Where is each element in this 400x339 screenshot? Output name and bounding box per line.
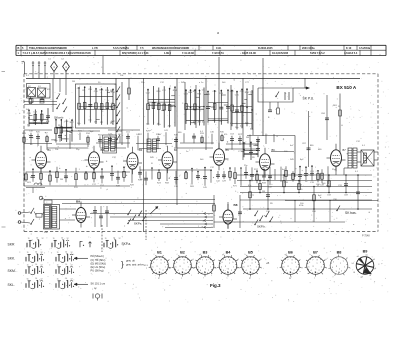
svg-text:47k: 47k <box>47 89 51 91</box>
svg-text:SK P.U.: SK P.U. <box>303 97 315 101</box>
svg-text:f: f <box>333 277 334 279</box>
svg-text:,: , <box>24 246 25 250</box>
svg-text:C29: C29 <box>222 181 227 183</box>
svg-text:10: 10 <box>35 278 37 280</box>
svg-text:50: 50 <box>140 179 143 181</box>
svg-text:R43: R43 <box>22 133 27 135</box>
svg-text:1: 1 <box>188 266 189 268</box>
svg-text:1: 1 <box>344 266 345 268</box>
svg-text:g: g <box>225 266 226 268</box>
svg-text:9: 9 <box>209 262 210 264</box>
svg-text:k: k <box>310 254 311 256</box>
svg-text:47k: 47k <box>224 134 228 136</box>
svg-text:C12: C12 <box>210 167 215 169</box>
svg-text:K 10: K 10 <box>346 47 352 50</box>
svg-text:a: a <box>317 263 319 265</box>
svg-text:1: 1 <box>210 266 211 268</box>
svg-text:5: 5 <box>283 266 284 268</box>
svg-text:C76: C76 <box>94 91 99 93</box>
svg-text:C17: C17 <box>92 184 97 186</box>
svg-text:11: 11 <box>57 265 59 267</box>
svg-text:s: s <box>261 267 262 269</box>
svg-text:4n7: 4n7 <box>290 145 294 147</box>
svg-text:1: 1 <box>256 266 257 268</box>
svg-text:1: 1 <box>18 52 20 55</box>
svg-text:6: 6 <box>199 262 200 264</box>
svg-text:g2: g2 <box>249 278 251 280</box>
svg-text:a: a <box>206 263 208 265</box>
svg-text:C12: C12 <box>112 157 117 159</box>
svg-text:5: 5 <box>152 266 153 268</box>
svg-text:B: B <box>18 47 20 50</box>
svg-text:8p2: 8p2 <box>90 131 94 133</box>
svg-text:6: 6 <box>153 262 154 264</box>
svg-text:C36: C36 <box>210 132 215 134</box>
svg-text:C12: C12 <box>162 90 167 92</box>
svg-text:5: 5 <box>333 262 334 264</box>
svg-text:SK 101 1 cm: SK 101 1 cm <box>91 281 106 285</box>
svg-text:1M: 1M <box>94 122 97 124</box>
svg-text:B7: B7 <box>313 251 318 255</box>
svg-text:0.1: 0.1 <box>362 145 366 147</box>
svg-text:11: 11 <box>27 252 29 254</box>
svg-text:B3: B3 <box>203 251 208 255</box>
svg-text:6: 6 <box>309 262 310 264</box>
svg-text:4.5.2034a: 4.5.2034a <box>359 47 371 50</box>
svg-text:R19: R19 <box>284 182 289 184</box>
svg-text:R53: R53 <box>157 91 162 93</box>
svg-text:B7: B7 <box>343 148 347 152</box>
svg-text:.: . <box>58 248 59 251</box>
svg-text:BX 510 A: BX 510 A <box>336 85 356 90</box>
svg-text:8: 8 <box>229 260 230 262</box>
svg-text:g2: g2 <box>222 254 224 256</box>
svg-text:R76: R76 <box>105 90 110 92</box>
svg-text:f: f <box>277 267 278 269</box>
svg-text:a: a <box>181 278 182 280</box>
svg-text:9: 9 <box>320 262 321 264</box>
svg-text:a5: a5 <box>365 254 367 256</box>
svg-text:8: 8 <box>206 260 207 262</box>
svg-text:,: , <box>23 260 24 264</box>
svg-text:1: 1 <box>296 266 297 268</box>
svg-text:,: , <box>53 272 54 276</box>
svg-text:47k: 47k <box>88 119 92 121</box>
svg-text:8: 8 <box>317 260 318 262</box>
svg-text:C35: C35 <box>174 186 179 188</box>
svg-text:25p: 25p <box>332 169 336 171</box>
svg-text:10: 10 <box>65 252 67 254</box>
svg-text:R71: R71 <box>233 186 238 188</box>
svg-text:10k: 10k <box>55 149 59 151</box>
svg-text:2: 2 <box>294 270 295 272</box>
svg-text:B9: B9 <box>363 250 368 254</box>
svg-text:↓ Ψ: ↓ Ψ <box>92 287 97 291</box>
svg-text:10: 10 <box>65 278 67 280</box>
svg-text:0.1: 0.1 <box>219 121 223 123</box>
svg-text:2: 2 <box>341 271 342 273</box>
svg-text:a: a <box>214 259 215 261</box>
svg-text:9: 9 <box>164 262 165 264</box>
svg-text:C31: C31 <box>310 171 315 173</box>
svg-text:4: 4 <box>200 270 201 272</box>
svg-text:5: 5 <box>308 266 309 268</box>
svg-text:5K3: 5K3 <box>27 182 32 184</box>
svg-text:R54: R54 <box>245 92 250 94</box>
svg-text:11: 11 <box>105 238 107 240</box>
svg-text:g1: g1 <box>193 267 195 269</box>
svg-text:R45: R45 <box>290 159 295 161</box>
svg-text:4: 4 <box>223 270 224 272</box>
svg-text:3: 3 <box>336 271 337 273</box>
svg-text:R23: R23 <box>157 183 162 185</box>
svg-text:k: k <box>192 267 193 269</box>
svg-text:s: s <box>347 257 348 259</box>
svg-text:R9: R9 <box>270 203 274 205</box>
svg-text:.: . <box>62 262 63 265</box>
svg-text:C13: C13 <box>33 111 38 113</box>
svg-text:C12: C12 <box>356 141 361 143</box>
svg-text:C41: C41 <box>164 130 169 132</box>
svg-text:11: 11 <box>53 238 55 240</box>
svg-text:7: 7 <box>9 100 11 102</box>
svg-text:7.42.56 51: 7.42.56 51 <box>212 52 224 55</box>
svg-text:g: g <box>202 266 203 268</box>
svg-text:7: 7 <box>179 260 180 262</box>
svg-text:47k: 47k <box>250 128 254 130</box>
svg-text:1n: 1n <box>305 181 308 183</box>
svg-text:B8: B8 <box>234 203 238 207</box>
svg-text:R17: R17 <box>254 169 259 171</box>
svg-text:11: 11 <box>28 238 30 240</box>
svg-text:5: 5 <box>243 266 244 268</box>
svg-text:11: 11 <box>57 252 59 254</box>
svg-text:8p2: 8p2 <box>300 159 304 161</box>
svg-text:2034 10/4a: 2034 10/4a <box>302 47 315 50</box>
svg-text:B4: B4 <box>174 148 178 152</box>
svg-text:C22: C22 <box>146 92 151 94</box>
svg-text:g: g <box>180 266 181 268</box>
svg-text:PU (SKf+g): PU (SKf+g) <box>91 269 104 273</box>
svg-text:7: 7 <box>156 260 157 262</box>
svg-text:C77: C77 <box>245 82 250 84</box>
svg-text:100: 100 <box>70 127 74 129</box>
svg-text:a: a <box>292 263 294 265</box>
svg-text:C58: C58 <box>327 195 332 197</box>
svg-text:g3: g3 <box>361 277 363 279</box>
svg-text:g: g <box>336 266 337 268</box>
svg-text:7.5: 7.5 <box>140 47 144 50</box>
svg-text:10k: 10k <box>120 75 124 77</box>
svg-text:1.89 4: 1.89 4 <box>164 52 172 55</box>
svg-text:.: . <box>62 289 63 292</box>
svg-text:10n: 10n <box>54 140 58 142</box>
svg-text:C50: C50 <box>88 89 93 91</box>
svg-text:7: 7 <box>225 260 226 262</box>
svg-text:R62: R62 <box>197 93 202 95</box>
svg-text:12: 12 <box>41 279 43 281</box>
svg-text:,: , <box>23 272 24 276</box>
svg-text:4.61/2.8 5.4: 4.61/2.8 5.4 <box>344 52 358 55</box>
svg-text:R58: R58 <box>165 182 170 184</box>
svg-text:1n: 1n <box>186 151 189 153</box>
svg-text:C.M.: C.M. <box>216 47 222 50</box>
svg-text:C32: C32 <box>29 131 34 133</box>
svg-text:6: 6 <box>284 262 285 264</box>
svg-text:R.2034-2045: R.2034-2045 <box>258 47 273 50</box>
svg-text:R67: R67 <box>70 122 75 124</box>
svg-text:C15: C15 <box>235 95 240 97</box>
svg-text:1: 1 <box>65 65 67 69</box>
svg-text:SKPa.: SKPa. <box>134 222 142 226</box>
svg-text:470k: 470k <box>299 205 304 207</box>
svg-text:(E) LG (SKe): (E) LG (SKe) <box>91 265 106 269</box>
svg-text:C86: C86 <box>312 211 317 213</box>
svg-text:L: L <box>111 105 113 109</box>
svg-text:f6: f6 <box>353 272 355 274</box>
svg-text:0.1: 0.1 <box>202 122 206 124</box>
svg-text:g: g <box>288 266 289 268</box>
svg-text:1: 1 <box>233 266 234 268</box>
svg-text:B6: B6 <box>288 251 293 255</box>
svg-text:5: 5 <box>221 266 222 268</box>
svg-text:10: 10 <box>35 252 37 254</box>
svg-text:g1: g1 <box>158 278 160 280</box>
svg-text:a: a <box>217 31 219 35</box>
svg-text:C77: C77 <box>250 195 255 197</box>
svg-text:C57: C57 <box>230 91 235 93</box>
svg-text:R29: R29 <box>146 131 151 133</box>
svg-text:C69: C69 <box>344 195 349 197</box>
svg-text:f: f <box>204 278 205 280</box>
svg-text:B1: B1 <box>157 251 162 255</box>
svg-text:R7: R7 <box>45 133 48 135</box>
svg-text:k: k <box>326 267 327 269</box>
svg-text:12: 12 <box>42 238 44 240</box>
svg-text:2k2: 2k2 <box>168 126 172 128</box>
svg-text:S30: S30 <box>44 232 49 234</box>
svg-text:680: 680 <box>178 132 182 134</box>
svg-text:f: f <box>177 254 178 256</box>
svg-text:,: , <box>49 246 50 250</box>
svg-text:R17: R17 <box>255 145 260 147</box>
svg-text:k: k <box>205 269 206 271</box>
svg-text:12: 12 <box>67 238 69 240</box>
svg-text:C51: C51 <box>126 131 131 133</box>
svg-text:8p2: 8p2 <box>318 195 322 197</box>
svg-text:R49: R49 <box>116 185 121 187</box>
svg-text:10: 10 <box>65 264 67 266</box>
svg-text:R20: R20 <box>36 132 41 134</box>
svg-text:B2: B2 <box>180 251 185 255</box>
svg-text:R33: R33 <box>262 183 267 185</box>
svg-text:k: k <box>228 269 229 271</box>
svg-text:.: . <box>33 248 34 251</box>
svg-text:1: 1 <box>321 266 322 268</box>
svg-text:2M: 2M <box>72 81 75 83</box>
svg-text:R62: R62 <box>98 134 103 136</box>
svg-text:R33: R33 <box>200 133 205 135</box>
svg-text:34.4,61/52/2/8: 34.4,61/52/2/8 <box>272 52 289 55</box>
svg-text:6: 6 <box>244 262 245 264</box>
svg-text:g1: g1 <box>325 259 327 261</box>
svg-text:g1: g1 <box>192 259 194 261</box>
svg-text:C2: C2 <box>61 59 65 61</box>
svg-text:4: 4 <box>155 270 156 272</box>
svg-text:k: k <box>245 254 246 256</box>
svg-text:k: k <box>291 269 292 271</box>
svg-text:50: 50 <box>30 144 33 146</box>
svg-text:4: 4 <box>178 270 179 272</box>
svg-text:C52: C52 <box>240 91 245 93</box>
svg-text:k: k <box>316 269 317 271</box>
svg-text:100: 100 <box>300 203 304 205</box>
svg-text:a5: a5 <box>357 256 359 258</box>
svg-text:B8: B8 <box>337 251 342 255</box>
svg-text:2M: 2M <box>262 191 265 193</box>
svg-text:R11: R11 <box>74 187 78 189</box>
svg-text:R28: R28 <box>130 184 135 186</box>
svg-text:SKL.: SKL. <box>8 283 15 287</box>
svg-text:C25: C25 <box>213 91 218 93</box>
svg-text:4: 4 <box>332 267 333 269</box>
svg-text:5k6: 5k6 <box>222 82 226 84</box>
svg-text:R34: R34 <box>86 133 91 135</box>
svg-text:2: 2 <box>231 270 232 272</box>
svg-text:5: 5 <box>175 266 176 268</box>
svg-text:7: 7 <box>202 260 203 262</box>
svg-text:10: 10 <box>61 238 63 240</box>
svg-text:B5: B5 <box>248 251 253 255</box>
svg-text:12: 12 <box>71 265 73 267</box>
svg-text:25p: 25p <box>76 149 80 151</box>
svg-text:12: 12 <box>71 279 73 281</box>
svg-text:680: 680 <box>318 149 322 151</box>
svg-text:10n: 10n <box>77 123 81 125</box>
svg-text:1n: 1n <box>201 82 204 84</box>
svg-text:.: . <box>62 275 63 278</box>
svg-text:L 7/8: L 7/8 <box>92 47 98 50</box>
svg-text:SKK.: SKK. <box>8 257 16 261</box>
svg-text:4: 4 <box>311 270 312 272</box>
svg-text:a: a <box>216 267 217 269</box>
svg-text:.: . <box>110 248 111 251</box>
svg-text:54/52 7,8.5.2: 54/52 7,8.5.2 <box>310 52 325 55</box>
svg-text:8: 8 <box>252 260 253 262</box>
svg-text:6: 6 <box>338 259 339 261</box>
svg-text:R45: R45 <box>150 157 155 159</box>
svg-text:10n: 10n <box>146 123 150 125</box>
svg-text:7: 7 <box>287 260 288 262</box>
svg-text:8: 8 <box>161 260 162 262</box>
svg-text:k2: k2 <box>352 263 354 265</box>
svg-text:10: 10 <box>35 264 37 266</box>
svg-text:B4: B4 <box>226 251 232 255</box>
svg-text:SK bas.: SK bas. <box>345 211 357 215</box>
svg-text:12: 12 <box>71 252 73 254</box>
svg-text:7.41.18 39: 7.41.18 39 <box>182 52 194 55</box>
svg-text:7.5.4 5 L.M.5.7,3/2/5/C/7/5/2/: 7.5.4 5 L.M.5.7,3/2/5/C/7/5/2/8/3 P.B.3 … <box>23 52 92 55</box>
svg-text:8: 8 <box>184 260 185 262</box>
svg-text:}: } <box>121 260 124 269</box>
svg-text:C7: C7 <box>77 88 81 90</box>
svg-text:a: a <box>350 267 351 269</box>
svg-text:R17: R17 <box>138 134 143 136</box>
svg-text:C6: C6 <box>118 134 121 136</box>
svg-text:C42: C42 <box>216 180 221 182</box>
svg-text:0.1: 0.1 <box>26 75 30 77</box>
svg-text:,: , <box>53 260 54 264</box>
svg-text:f: f <box>302 267 303 269</box>
svg-text:TOELATINGEN GEDEPONEERD: TOELATINGEN GEDEPONEERD <box>29 47 67 50</box>
svg-text:R74: R74 <box>219 93 224 95</box>
svg-text:PA (SKa+b): PA (SKa+b) <box>91 254 104 258</box>
svg-text:a: a <box>161 263 163 265</box>
svg-text:4: 4 <box>246 270 247 272</box>
svg-text:,: , <box>53 286 54 290</box>
svg-text:7: 7 <box>343 261 344 263</box>
svg-text:50: 50 <box>98 82 101 84</box>
svg-text:5: 5 <box>22 47 24 50</box>
svg-text:s: s <box>300 259 301 261</box>
svg-text:2M: 2M <box>246 137 249 139</box>
svg-text:a: a <box>239 267 240 269</box>
svg-text:10n: 10n <box>235 127 239 129</box>
svg-text:R9: R9 <box>252 157 256 159</box>
svg-text:12: 12 <box>41 252 43 254</box>
svg-text:(D) MS (SKd): (D) MS (SKd) <box>91 261 106 265</box>
svg-text:9: 9 <box>255 262 256 264</box>
svg-text:2M: 2M <box>60 179 63 181</box>
svg-text:0.1: 0.1 <box>355 171 359 173</box>
svg-text:5: 5 <box>198 266 199 268</box>
svg-text:R61: R61 <box>333 105 338 107</box>
svg-text:g2: g2 <box>260 259 262 261</box>
svg-text:C19: C19 <box>310 182 315 184</box>
svg-text:a: a <box>146 267 147 269</box>
svg-text:g1: g1 <box>237 259 239 261</box>
svg-text:g: g <box>157 266 158 268</box>
svg-text:f: f <box>328 258 329 260</box>
svg-text:k: k <box>251 269 252 271</box>
svg-text:6: 6 <box>176 262 177 264</box>
svg-text:5.6.5.7a/5b/5c: 5.6.5.7a/5b/5c <box>113 47 130 50</box>
svg-text:C53: C53 <box>230 134 235 136</box>
svg-text:C1: C1 <box>48 59 52 61</box>
svg-text:B5: B5 <box>226 148 230 152</box>
svg-text:SKP.b.: SKP.b. <box>257 225 266 229</box>
svg-text:4n7: 4n7 <box>282 169 286 171</box>
svg-text:6: 6 <box>222 262 223 264</box>
svg-text:s: s <box>314 278 315 280</box>
svg-text:(C) HS (SKc): (C) HS (SKc) <box>91 258 106 262</box>
svg-text:11: 11 <box>27 265 29 267</box>
svg-text:g: g <box>313 266 314 268</box>
svg-text:f6: f6 <box>369 275 371 277</box>
svg-text:,: , <box>23 286 24 290</box>
svg-text:a: a <box>215 267 216 269</box>
svg-text:C84: C84 <box>321 113 326 115</box>
svg-text:Fig.3: Fig.3 <box>210 283 221 288</box>
svg-text:gew. antr. a+b+c: gew. antr. a+b+c <box>126 263 145 267</box>
svg-text:+13: +13 <box>144 265 148 267</box>
svg-text:g2: g2 <box>169 267 171 269</box>
svg-text:R9: R9 <box>83 90 87 92</box>
svg-text:2: 2 <box>163 270 164 272</box>
svg-text:8/5(7/2/5/8/C) 14 1 7.43: 8/5(7/2/5/8/C) 14 1 7.43 <box>122 52 149 55</box>
svg-text:k: k <box>339 269 340 271</box>
svg-text:g2: g2 <box>199 254 201 256</box>
